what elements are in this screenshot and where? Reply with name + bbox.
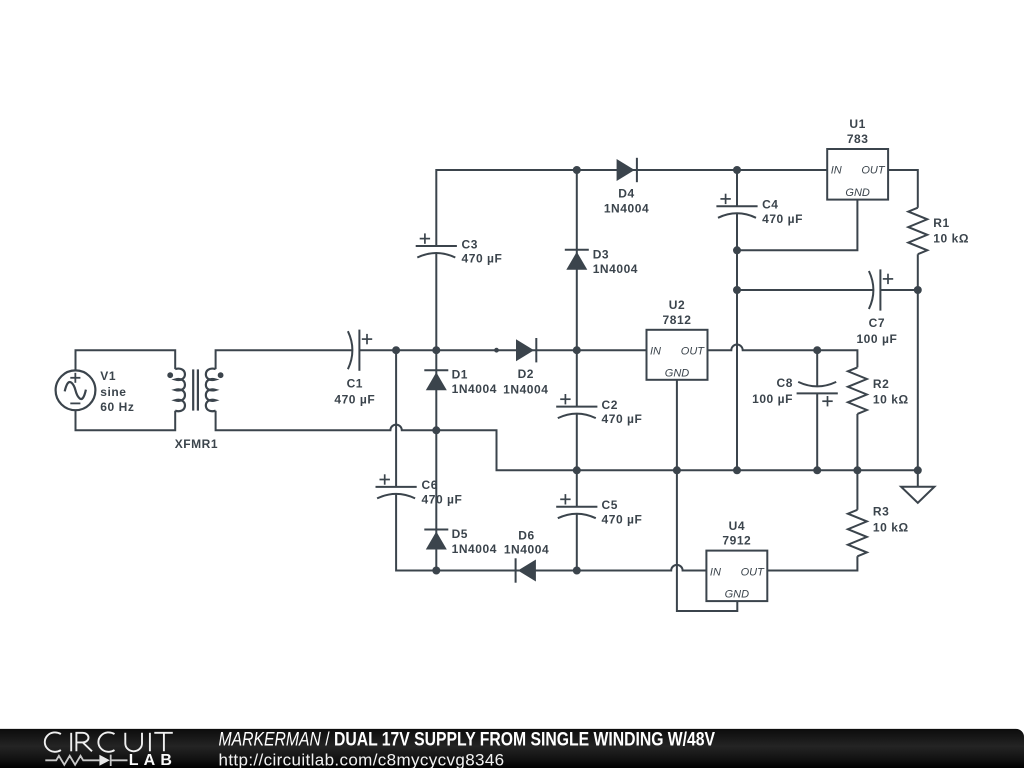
node: mid rail anchor before D2 bbox=[494, 348, 499, 353]
svg-text:C6: C6 bbox=[422, 478, 438, 492]
node: bottom rail / C5 line bbox=[573, 567, 581, 575]
svg-text:GND: GND bbox=[845, 187, 870, 199]
wire: C8 lower (to ground bus) bbox=[816, 393, 818, 470]
svg-text:C4: C4 bbox=[762, 198, 778, 212]
ground bbox=[901, 487, 934, 503]
svg-text:C7: C7 bbox=[869, 316, 885, 330]
svg-text:GND: GND bbox=[725, 589, 750, 601]
resistor R3 bbox=[848, 510, 867, 557]
svg-text:GND: GND bbox=[665, 367, 690, 379]
diode D5 bbox=[424, 530, 448, 550]
svg-text:470 µF: 470 µF bbox=[762, 212, 803, 226]
wire: R3 top to ground bus bbox=[856, 470, 858, 510]
transformer XFMR1 bbox=[175, 369, 215, 412]
node: secondary bottom / D1-D5 line bbox=[432, 426, 440, 434]
resistor R1 bbox=[908, 208, 927, 255]
diode D3 bbox=[565, 250, 589, 270]
svg-text:IN: IN bbox=[650, 346, 661, 358]
node: top rail / D3 line bbox=[573, 166, 581, 174]
wire: XFMR1 secondary bottom, hop over C6 line, junction, step down to ground bus bbox=[216, 411, 918, 471]
wire: mid rail C1 to U2 IN bbox=[359, 349, 646, 351]
svg-text:C5: C5 bbox=[602, 498, 618, 512]
svg-text:LAB: LAB bbox=[129, 752, 177, 768]
svg-text:7812: 7812 bbox=[663, 313, 692, 327]
svg-text:10 kΩ: 10 kΩ bbox=[873, 520, 909, 534]
svg-text:D4: D4 bbox=[618, 186, 634, 200]
svg-text:OUT: OUT bbox=[741, 566, 766, 578]
svg-text:470 µF: 470 µF bbox=[462, 252, 503, 266]
svg-text:R2: R2 bbox=[873, 377, 889, 391]
wire: C4 line lower (to ground bus) bbox=[736, 213, 738, 470]
wire: U2 GND to U4 GND link bbox=[677, 380, 737, 611]
CircuitLab logo: resistor-diode glyph bbox=[45, 755, 127, 766]
node: C7 rail / R1 line bbox=[914, 286, 922, 294]
node: ground bus / C2-C5 line bbox=[573, 466, 581, 474]
wire: V1 loop bottom (XFMR1 primary bottom to V1 minus) bbox=[76, 410, 176, 430]
svg-text:U4: U4 bbox=[729, 519, 745, 533]
node: ground bus / C4 line bbox=[733, 466, 741, 474]
svg-text:C8: C8 bbox=[777, 376, 793, 390]
regulator U4 (7912) bbox=[706, 551, 767, 602]
wire: D3/C2/C5 vertical line upper bbox=[576, 170, 578, 407]
resistor R2 bbox=[848, 367, 867, 414]
svg-text:U1: U1 bbox=[849, 117, 865, 131]
svg-text:1N4004: 1N4004 bbox=[452, 382, 497, 396]
wire: U4 OUT to R3 bottom bbox=[767, 556, 857, 570]
node: OUT rail / C8 bbox=[813, 346, 821, 354]
node: ground bus / U2 GND bbox=[673, 466, 681, 474]
svg-text:1N4004: 1N4004 bbox=[593, 262, 638, 276]
wire: C2 to C5 segment bbox=[576, 414, 578, 507]
capacitor C5 bbox=[556, 494, 597, 518]
regulator U1 (783) bbox=[827, 149, 888, 200]
wire: XFMR1 secondary top to C1 bbox=[216, 350, 353, 369]
wire: C4 line upper (top rail to C4) bbox=[736, 170, 738, 206]
capacitor C4 bbox=[716, 194, 757, 218]
node: ground bus / C8 bbox=[813, 466, 821, 474]
svg-text:IN: IN bbox=[831, 165, 842, 177]
voltage source V1 (sine 60 Hz) bbox=[56, 370, 96, 410]
wire: C3/D1/D5 vertical line bbox=[435, 254, 437, 571]
diode D2 bbox=[516, 338, 536, 362]
svg-text:OUT: OUT bbox=[861, 165, 886, 177]
regulator U2 (7812) bbox=[647, 330, 708, 380]
svg-text:10 kΩ: 10 kΩ bbox=[873, 393, 909, 407]
node: mid rail / C3-D1 line bbox=[432, 346, 440, 354]
svg-text:60 Hz: 60 Hz bbox=[100, 400, 134, 414]
svg-text:D1: D1 bbox=[452, 368, 468, 382]
svg-text:470 µF: 470 µF bbox=[602, 412, 643, 426]
svg-text:IN: IN bbox=[710, 566, 721, 578]
wire: V1 loop top (V1 plus to XFMR1 primary top) bbox=[76, 350, 176, 370]
svg-text:D5: D5 bbox=[452, 527, 468, 541]
svg-text:XFMR1: XFMR1 bbox=[175, 437, 218, 451]
wire: R2 bottom to ground bus bbox=[856, 414, 858, 470]
node: ground bus / R2-R3 bbox=[853, 466, 861, 474]
CircuitLab logo: CIRCUIT bbox=[45, 732, 173, 751]
svg-text:1N4004: 1N4004 bbox=[504, 542, 549, 556]
svg-text:C2: C2 bbox=[602, 398, 618, 412]
svg-text:U2: U2 bbox=[669, 298, 685, 312]
svg-text:1N4004: 1N4004 bbox=[604, 202, 649, 216]
wire: C7 left to C4 line bbox=[737, 289, 873, 291]
svg-text:MARKERMAN / DUAL 17V SUPPLY FR: MARKERMAN / DUAL 17V SUPPLY FROM SINGLE … bbox=[219, 728, 716, 750]
svg-text:470 µF: 470 µF bbox=[334, 392, 375, 406]
svg-text:783: 783 bbox=[847, 132, 869, 146]
capacitor C2 bbox=[556, 394, 597, 418]
node: ground bus / ground symbol bbox=[914, 466, 922, 474]
svg-text:R3: R3 bbox=[873, 504, 889, 518]
svg-text:R1: R1 bbox=[933, 216, 949, 230]
capacitor C6 bbox=[376, 474, 417, 498]
node: bottom rail / D5 bbox=[432, 567, 440, 575]
svg-text:470 µF: 470 µF bbox=[602, 512, 643, 526]
node: mid rail / D3-C2 line bbox=[573, 346, 581, 354]
wire: C5 to bottom rail segment bbox=[576, 514, 578, 571]
wire: C6 vertical line upper bbox=[395, 350, 397, 487]
node: mid rail / C6 line bbox=[392, 346, 400, 354]
capacitor C7 bbox=[869, 269, 893, 310]
svg-text:7912: 7912 bbox=[722, 534, 751, 548]
svg-text:D2: D2 bbox=[518, 367, 534, 381]
node: top rail / C4 line bbox=[733, 166, 741, 174]
svg-text:C3: C3 bbox=[462, 237, 478, 251]
diode D6 bbox=[516, 558, 536, 582]
diode D4 bbox=[617, 158, 637, 182]
footer title: author / circuit name bbox=[219, 728, 716, 750]
wire: C8 upper (OUT rail to C8) bbox=[816, 350, 818, 386]
footer bar bbox=[0, 729, 1024, 768]
wire: C7 right bbox=[881, 289, 918, 291]
wire: U2 OUT rail (hops over C4 line) to R2 top bbox=[708, 345, 858, 368]
svg-text:470 µF: 470 µF bbox=[422, 493, 463, 507]
svg-text:OUT: OUT bbox=[681, 346, 706, 358]
svg-text:sine: sine bbox=[100, 385, 126, 399]
svg-text:100 µF: 100 µF bbox=[752, 392, 793, 406]
wire: R1 bottom to ground bus and ground symbol stem bbox=[917, 254, 919, 486]
svg-text:V1: V1 bbox=[100, 369, 116, 383]
svg-text:C1: C1 bbox=[347, 377, 363, 391]
wire: U1 OUT to R1 top bbox=[888, 170, 918, 208]
capacitor C3 bbox=[416, 233, 457, 257]
wire: top rail (C3 line up, across D4 to U1 IN) bbox=[436, 170, 827, 246]
svg-text:1N4004: 1N4004 bbox=[503, 382, 548, 396]
capacitor C1 bbox=[348, 330, 372, 371]
wire: C6 line lower + bottom rail (hop over U2 GND line) to U4 IN bbox=[396, 494, 706, 571]
svg-text:10 kΩ: 10 kΩ bbox=[933, 232, 969, 246]
node: C7 rail / C4 line bbox=[733, 286, 741, 294]
svg-text:D3: D3 bbox=[593, 247, 609, 261]
svg-text:D6: D6 bbox=[518, 529, 534, 543]
node: U1 GND link / C4 line bbox=[733, 246, 741, 254]
diode D1 bbox=[424, 370, 448, 390]
svg-text:http://circuitlab.com/c8mycycv: http://circuitlab.com/c8mycycvg8346 bbox=[219, 750, 505, 768]
wire: U1 GND link bbox=[737, 200, 857, 251]
svg-text:1N4004: 1N4004 bbox=[452, 542, 497, 556]
capacitor C8 bbox=[797, 382, 838, 407]
svg-text:100 µF: 100 µF bbox=[856, 332, 897, 346]
